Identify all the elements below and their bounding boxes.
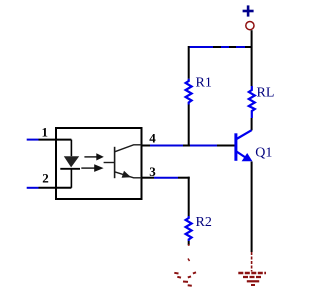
- pin 2 wire: [27, 187, 39, 189]
- wire RL to collector: [251, 118, 253, 130]
- plus supply symbol: [243, 5, 254, 16]
- LED cathode bar: [60, 168, 80, 170]
- light arrow lower: [81, 167, 94, 169]
- resistor R1: [186, 79, 192, 105]
- wire R2 lower stub: [188, 241, 190, 245]
- light arrow upper: [84, 156, 97, 158]
- wire base from opto pin 4: [142, 145, 150, 147]
- resistor R2: [186, 216, 192, 241]
- transistor Q1: [236, 130, 252, 161]
- ground (earth) under Q1: [238, 252, 266, 285]
- ground (faded) under R2: [174, 259, 196, 286]
- optocoupler U1 box: [56, 128, 142, 199]
- LED cathode lead: [70, 169, 72, 188]
- svg-text:1: 1: [42, 124, 49, 139]
- LED triangle: [64, 156, 79, 167]
- wire opto pin 3 to R2: [142, 177, 154, 179]
- wire R1 branch upper: [188, 46, 190, 79]
- wire top horizontal: [189, 46, 252, 48]
- svg-text:RL: RL: [257, 86, 275, 101]
- wire RL branch upper: [251, 47, 253, 86]
- phototransistor emitter arrow: [122, 171, 131, 178]
- svg-text:R2: R2: [196, 215, 212, 230]
- svg-text:3: 3: [149, 164, 156, 179]
- svg-text:4: 4: [149, 131, 156, 146]
- wire vertical from terminal: [251, 30, 253, 47]
- resistor RL: [249, 86, 255, 118]
- svg-text:2: 2: [42, 171, 49, 186]
- supply terminal circle: [246, 22, 254, 30]
- svg-text:R1: R1: [196, 76, 212, 91]
- wire emitter down: [251, 162, 253, 253]
- LED anode lead: [70, 140, 72, 157]
- wire R1 branch lower: [188, 105, 190, 147]
- phototransistor: [104, 145, 142, 178]
- svg-text:Q1: Q1: [255, 145, 272, 160]
- pin 1 wire: [27, 139, 39, 141]
